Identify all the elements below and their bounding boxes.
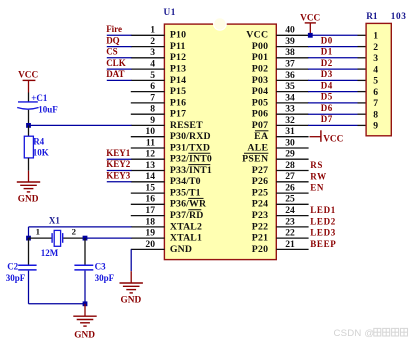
wire RESET net to U1 pin 9 (29, 124, 132, 126)
wire to crystal left plate (29, 237, 52, 239)
U1 pin 6 stub (131, 91, 165, 93)
svg-text:39: 39 (285, 36, 295, 47)
U1 pin 12 stub (131, 158, 165, 160)
svg-text:P00: P00 (252, 41, 269, 52)
svg-text:3: 3 (373, 53, 378, 64)
svg-text:P14: P14 (170, 75, 186, 86)
svg-text:D1: D1 (321, 47, 333, 57)
capacitor C2 (18, 264, 36, 266)
svg-text:34: 34 (285, 92, 295, 103)
svg-text:10K: 10K (33, 148, 49, 158)
svg-text:14: 14 (145, 171, 155, 182)
svg-text:6: 6 (373, 87, 378, 98)
svg-text:P22: P22 (252, 221, 269, 232)
crystal X1 (51, 233, 53, 243)
svg-text:37: 37 (285, 59, 295, 70)
U1 pin 16 stub (131, 203, 165, 205)
svg-text:22: 22 (285, 228, 295, 239)
svg-text:32: 32 (285, 115, 295, 126)
svg-text:40: 40 (285, 25, 295, 36)
svg-text:C3: C3 (95, 261, 106, 271)
svg-text:CLK: CLK (106, 58, 126, 68)
svg-text:XTAL1: XTAL1 (170, 233, 202, 244)
U1 pin 9 stub (131, 124, 165, 126)
wire U1 pin 36 to R1 pin 5 (308, 79, 358, 81)
svg-text:P13: P13 (170, 64, 186, 75)
wire R4 to ground (28, 158, 30, 171)
svg-text:103: 103 (391, 12, 407, 22)
svg-text:P30/RXD: P30/RXD (170, 131, 211, 142)
svg-text:38: 38 (285, 47, 295, 58)
U1 pin 37 stub (276, 68, 308, 70)
svg-text:P10: P10 (170, 30, 186, 41)
U1 notch (214, 18, 227, 31)
svg-text:8: 8 (373, 110, 378, 121)
svg-text:P17: P17 (170, 109, 186, 120)
U1 pin 21 stub (276, 248, 308, 250)
wire net DQ (107, 46, 132, 48)
U1 pin 40 stub (276, 34, 308, 36)
svg-text:3: 3 (150, 47, 155, 58)
U1 pin 25 stub (276, 203, 308, 205)
wire U1 pin 35 to R1 pin 6 (308, 91, 358, 93)
svg-text:P24: P24 (252, 199, 269, 210)
svg-text:P21: P21 (252, 233, 269, 244)
wire U1 pin 32 to R1 pin 9 (308, 124, 358, 126)
svg-text:P05: P05 (252, 97, 269, 108)
svg-text:PSEN: PSEN (242, 154, 268, 165)
svg-text:28: 28 (285, 160, 295, 171)
U1 pin 19 stub (131, 237, 165, 239)
svg-text:P36/WR: P36/WR (170, 199, 207, 210)
svg-text:LED2: LED2 (310, 216, 336, 226)
svg-text:16: 16 (145, 194, 155, 205)
svg-text:CSDN @: CSDN @ (334, 328, 375, 339)
svg-text:33: 33 (285, 104, 295, 115)
svg-text:GND: GND (18, 195, 39, 205)
svg-text:35: 35 (285, 81, 295, 92)
wire C3 to ground node (84, 271, 86, 304)
svg-text:D0: D0 (321, 35, 333, 45)
svg-text:P25: P25 (252, 188, 269, 199)
svg-text:8: 8 (150, 104, 155, 115)
svg-text:D7: D7 (321, 114, 333, 124)
U1 pin 24 stub (276, 215, 308, 217)
wire U1 pin 40 to R1 pin 1 (308, 34, 358, 36)
wire junction to R4 (28, 125, 30, 136)
svg-text:CS: CS (106, 47, 118, 57)
wire XTAL1 net to U1 pin 19 (85, 237, 132, 239)
node VCC junction pin 40 (308, 33, 313, 38)
svg-text:P32/INT0: P32/INT0 (170, 154, 212, 165)
svg-text:P01: P01 (252, 52, 269, 63)
svg-text:P23: P23 (252, 210, 269, 221)
svg-text:17: 17 (145, 205, 155, 216)
wire U1 pin 39 to R1 pin 2 (308, 46, 358, 48)
svg-text:27: 27 (285, 171, 295, 182)
svg-text:P37/RD: P37/RD (170, 210, 204, 221)
U1 pin 5 stub (131, 79, 165, 81)
svg-text:5: 5 (150, 70, 155, 81)
U1 pin 29 stub (276, 158, 308, 160)
svg-text:2: 2 (72, 226, 77, 236)
wire net KEY2 (107, 170, 132, 172)
svg-text:25: 25 (285, 194, 295, 205)
svg-text:1: 1 (36, 226, 40, 236)
svg-text:D5: D5 (321, 92, 333, 102)
svg-text:10: 10 (145, 126, 155, 137)
svg-text:P27: P27 (252, 165, 269, 176)
svg-text:4: 4 (150, 59, 155, 70)
svg-text:KEY1: KEY1 (106, 148, 131, 158)
svg-text:29: 29 (285, 149, 295, 160)
svg-text:23: 23 (285, 216, 295, 227)
wire U1 pin 38 to R1 pin 3 (308, 57, 358, 59)
svg-text:9: 9 (150, 115, 155, 126)
svg-text:7: 7 (373, 98, 378, 109)
svg-text:36: 36 (285, 70, 295, 81)
wire EA to VCC (310, 136, 321, 138)
svg-text:GND: GND (170, 244, 192, 255)
wire VCC to C1 (28, 93, 30, 102)
svg-text:DQ: DQ (106, 35, 120, 45)
wire ground rail horizontal (29, 303, 86, 305)
svg-text:P34/T0: P34/T0 (170, 176, 201, 187)
svg-text:31: 31 (285, 126, 295, 137)
svg-text:10uF: 10uF (38, 104, 58, 114)
svg-text:P04: P04 (252, 86, 269, 97)
svg-text:XTAL2: XTAL2 (170, 221, 202, 232)
wire XTAL2 net to U1 pin 18 (29, 226, 132, 228)
svg-text:LED3: LED3 (310, 228, 336, 238)
svg-text:P35/T1: P35/T1 (170, 188, 201, 199)
capacitor C3 (74, 264, 93, 266)
svg-text:C2: C2 (7, 261, 18, 271)
svg-text:DAT: DAT (106, 69, 124, 79)
svg-text:P11: P11 (170, 41, 186, 52)
power VCC bar at EA (320, 130, 322, 142)
wire U1 pin 20 to ground (130, 249, 132, 271)
svg-text:+C1: +C1 (31, 93, 48, 103)
svg-text:GND: GND (121, 296, 142, 306)
node crystal pin 1 junction (26, 236, 31, 241)
svg-text:VCC: VCC (300, 13, 320, 23)
svg-text:P12: P12 (170, 52, 186, 63)
U1 pin 18 stub (131, 226, 165, 228)
svg-text:20: 20 (145, 239, 155, 250)
U1 pin 38 stub (276, 57, 308, 59)
svg-text:P15: P15 (170, 86, 186, 97)
U1 pin 17 stub (131, 215, 165, 217)
svg-text:2: 2 (373, 42, 378, 53)
U1 pin 14 stub (131, 181, 165, 183)
svg-text:RESET: RESET (170, 120, 203, 131)
svg-text:1: 1 (150, 25, 155, 36)
svg-text:P20: P20 (252, 244, 269, 255)
wire U1 pin 33 to R1 pin 8 (308, 113, 358, 115)
U1 pin 32 stub (276, 124, 308, 126)
svg-text:7: 7 (150, 92, 155, 103)
svg-text:9: 9 (373, 121, 378, 132)
U1 pin 10 stub (131, 136, 165, 138)
svg-text:P06: P06 (252, 109, 269, 120)
U1 pin 26 stub (276, 192, 308, 194)
svg-text:RS: RS (310, 160, 323, 170)
svg-text:6: 6 (150, 81, 155, 92)
wire net DAT (107, 79, 132, 81)
svg-text:30pF: 30pF (6, 273, 26, 283)
svg-text:5: 5 (373, 76, 378, 87)
svg-text:P31/TXD: P31/TXD (170, 142, 210, 153)
wire U1 pin 34 to R1 pin 7 (308, 102, 358, 104)
wire net CS (107, 57, 132, 59)
svg-text:P07: P07 (252, 120, 269, 131)
svg-text:D3: D3 (321, 69, 333, 79)
wire XTAL2 net vertical (28, 227, 30, 238)
U1 pin 1 stub (131, 34, 165, 36)
capacitor C1 polarized (18, 101, 38, 103)
svg-text:EN: EN (310, 183, 324, 193)
svg-text:30: 30 (285, 137, 295, 148)
resistor network R1 (366, 23, 391, 135)
wire C2 to ground rail (28, 271, 30, 304)
svg-text:11: 11 (146, 137, 155, 148)
svg-text:D2: D2 (321, 58, 333, 68)
svg-text:P02: P02 (252, 64, 269, 75)
U1 pin 11 stub (131, 147, 165, 149)
wire net CLK (107, 68, 132, 70)
svg-text:30pF: 30pF (95, 273, 115, 283)
wire U1 pin 37 to R1 pin 4 (308, 68, 358, 70)
wire crystal to C2 (28, 238, 30, 265)
svg-text:D4: D4 (321, 80, 333, 90)
svg-text:2: 2 (150, 36, 155, 47)
svg-text:P03: P03 (252, 75, 269, 86)
U1 pin 35 stub (276, 91, 308, 93)
svg-text:1: 1 (373, 31, 378, 42)
svg-text:P16: P16 (170, 97, 186, 108)
svg-text:BEEP: BEEP (310, 239, 336, 249)
U1 pin 28 stub (276, 170, 308, 172)
U1 pin 13 stub (131, 170, 165, 172)
svg-text:GND: GND (74, 330, 95, 340)
U1 pin 2 stub (131, 46, 165, 48)
ground below U1 (130, 271, 132, 283)
ground below R4 (28, 171, 30, 182)
U1 pin 39 stub (276, 46, 308, 48)
svg-text:KEY2: KEY2 (106, 159, 131, 169)
svg-text:ALE: ALE (247, 142, 268, 153)
node RESET junction (26, 123, 31, 128)
U1 pin 15 stub (131, 192, 165, 194)
U1 pin 23 stub (276, 226, 308, 228)
svg-text:KEY3: KEY3 (106, 171, 131, 181)
svg-text:26: 26 (285, 183, 295, 194)
svg-text:13: 13 (145, 160, 155, 171)
wire net KEY3 (107, 181, 132, 183)
svg-text:21: 21 (285, 239, 295, 250)
ground below crystal caps (84, 304, 86, 316)
svg-text:VCC: VCC (323, 134, 343, 144)
svg-text:VCC: VCC (246, 30, 268, 41)
svg-text:D6: D6 (321, 103, 333, 113)
wire C1 to node RESET (28, 110, 30, 126)
svg-text:12: 12 (145, 149, 155, 160)
svg-text:15: 15 (145, 183, 155, 194)
svg-text:LED1: LED1 (310, 205, 336, 215)
wire crystal to C3 (84, 238, 86, 265)
svg-text:EA: EA (254, 131, 268, 142)
U1 pin 33 stub (276, 113, 308, 115)
svg-text:X1: X1 (49, 216, 60, 226)
svg-text:RW: RW (310, 171, 327, 181)
U1 pin 36 stub (276, 79, 308, 81)
svg-text:R1: R1 (366, 12, 378, 22)
svg-text:12M: 12M (41, 248, 59, 258)
svg-text:P33/INT1: P33/INT1 (170, 165, 212, 176)
svg-text:VCC: VCC (18, 71, 38, 81)
U1 pin 4 stub (131, 68, 165, 70)
svg-text:24: 24 (285, 205, 295, 216)
U1 pin 8 stub (131, 113, 165, 115)
wire crystal right plate to node (63, 237, 85, 239)
svg-text:U1: U1 (164, 8, 176, 18)
svg-text:19: 19 (145, 228, 155, 239)
U1 pin 27 stub (276, 181, 308, 183)
wire net KEY1 (107, 158, 132, 160)
U1 pin 7 stub (131, 102, 165, 104)
svg-text:4: 4 (373, 64, 378, 75)
U1 pin 22 stub (276, 237, 308, 239)
wire net Fire (107, 34, 132, 36)
svg-text:R4: R4 (33, 136, 44, 146)
U1 pin 20 stub (131, 248, 165, 250)
node ground junction (83, 301, 88, 306)
svg-text:18: 18 (145, 216, 155, 227)
svg-text:P26: P26 (252, 176, 269, 187)
U1 pin 34 stub (276, 102, 308, 104)
svg-text:Fire: Fire (106, 24, 122, 34)
node crystal pin 2 junction (83, 236, 88, 241)
resistor R4 (24, 136, 33, 158)
U1 pin 31 stub (276, 136, 308, 138)
op-amp U1 microcontroller body (164, 24, 276, 260)
U1 pin 3 stub (131, 57, 165, 59)
U1 pin 30 stub (276, 147, 308, 149)
